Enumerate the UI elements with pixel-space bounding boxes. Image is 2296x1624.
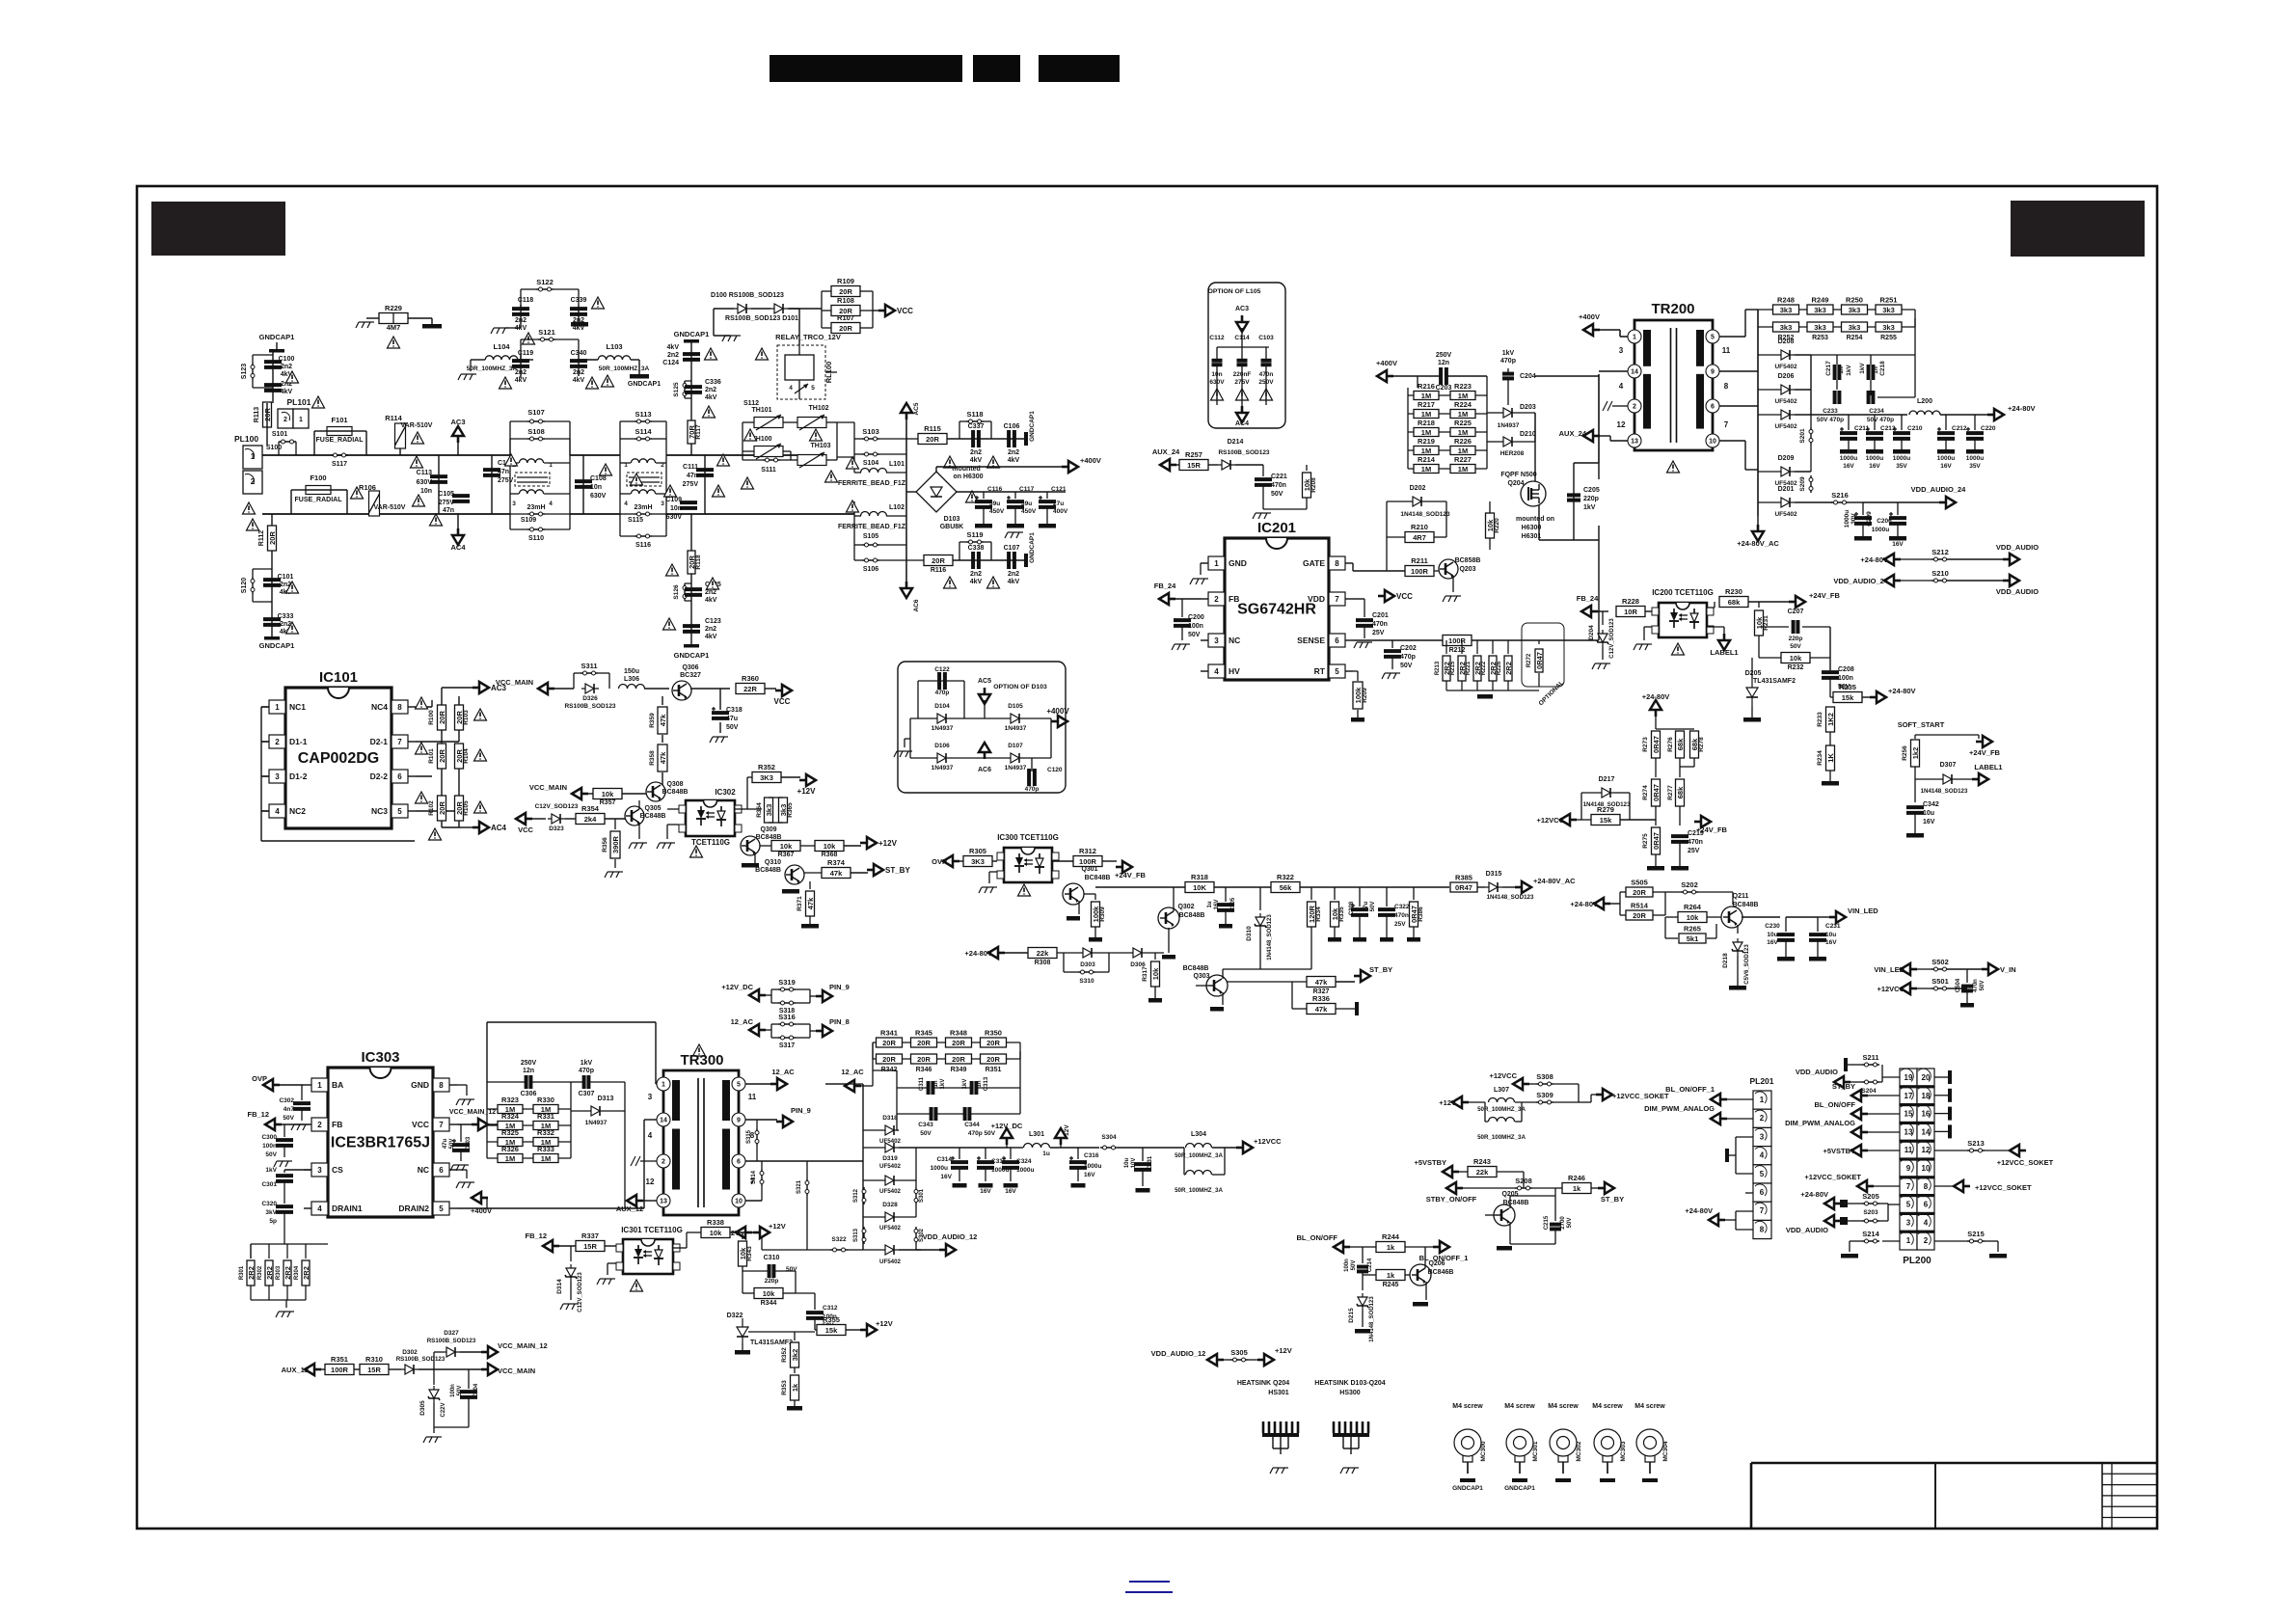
svg-text:Q206: Q206 bbox=[1428, 1260, 1445, 1267]
resistor R272 optional bbox=[1522, 623, 1564, 687]
svg-text:C12V_SOD123: C12V_SOD123 bbox=[1609, 618, 1615, 659]
drawing frame border bbox=[137, 186, 2157, 1529]
svg-text:C342: C342 bbox=[1923, 801, 1939, 808]
svg-text:S210: S210 bbox=[1931, 569, 1949, 578]
capacitor C304 bbox=[468, 1369, 470, 1389]
wires option D103 bbox=[910, 717, 933, 719]
diode D206 bbox=[1777, 385, 1795, 394]
svg-text:6: 6 bbox=[439, 1166, 444, 1175]
svg-text:VDD_AUDIO_24: VDD_AUDIO_24 bbox=[1833, 577, 1889, 585]
arrow +24-80V right bbox=[1870, 691, 1886, 703]
svg-text:VIN_LED: VIN_LED bbox=[1848, 907, 1878, 915]
capacitor C119 bbox=[520, 355, 522, 378]
capacitor C340 bbox=[578, 355, 580, 376]
svg-text:VDD_AUDIO: VDD_AUDIO bbox=[1996, 543, 2039, 552]
jumper S305 bbox=[1207, 1354, 1224, 1366]
resistor R118 bbox=[690, 514, 692, 644]
svg-text:S101: S101 bbox=[272, 431, 287, 438]
resistor R354 bbox=[576, 814, 605, 825]
svg-text:R107: R107 bbox=[837, 313, 854, 322]
resistor R235 bbox=[1833, 692, 1862, 703]
svg-text:S114: S114 bbox=[635, 427, 652, 436]
capacitor C208 bbox=[1822, 670, 1839, 674]
svg-text:50R_100MHZ_3A: 50R_100MHZ_3A bbox=[1175, 1187, 1223, 1194]
jumper S216 bbox=[1831, 501, 1849, 503]
svg-text:D100 RS100B_SOD123: D100 RS100B_SOD123 bbox=[711, 292, 784, 299]
IC IC201 SG6742HR bbox=[1225, 538, 1329, 680]
svg-text:VCC_MAIN_12: VCC_MAIN_12 bbox=[498, 1341, 548, 1350]
svg-text:R218: R218 bbox=[1418, 419, 1435, 427]
resistors R364 R365 bbox=[747, 808, 762, 810]
svg-text:+12VCC_SOKET: +12VCC_SOKET bbox=[1804, 1173, 1861, 1181]
arrow AC5 option bbox=[979, 688, 990, 704]
svg-text:D214: D214 bbox=[1228, 439, 1244, 446]
svg-text:1n: 1n bbox=[1838, 366, 1845, 374]
svg-text:S104: S104 bbox=[863, 460, 878, 467]
varistor R114 bbox=[395, 423, 406, 448]
svg-text:50V: 50V bbox=[1271, 491, 1283, 498]
capacitor C322 bbox=[1386, 887, 1388, 907]
svg-text:3: 3 bbox=[1760, 1132, 1765, 1141]
svg-text:R349: R349 bbox=[951, 1067, 967, 1073]
svg-text:AC4: AC4 bbox=[491, 824, 507, 832]
svg-text:2: 2 bbox=[1924, 1236, 1929, 1245]
svg-text:D1-1: D1-1 bbox=[289, 737, 308, 746]
svg-text:C320: C320 bbox=[261, 1201, 277, 1207]
main rail 24-80V_AC bbox=[1095, 886, 1185, 888]
svg-text:PIN_9: PIN_9 bbox=[829, 983, 850, 991]
jumper S202 bbox=[1681, 891, 1698, 893]
svg-text:D319: D319 bbox=[882, 1155, 898, 1162]
svg-text:R227: R227 bbox=[1454, 455, 1472, 464]
svg-text:13: 13 bbox=[1631, 439, 1638, 446]
arrow +12VCC bbox=[1560, 814, 1577, 826]
svg-text:C109: C109 bbox=[665, 497, 682, 503]
arrow +24-80V q302 bbox=[988, 947, 1005, 959]
svg-text:VCC: VCC bbox=[897, 307, 913, 315]
resistor R334 bbox=[1310, 887, 1312, 900]
resistor R211 bbox=[1405, 566, 1434, 577]
svg-text:+24-80V: +24-80V bbox=[1570, 900, 1598, 908]
pl201 pins 3-5 join bbox=[1736, 1136, 1753, 1138]
svg-text:GNDCAP1: GNDCAP1 bbox=[674, 330, 710, 338]
svg-text:1kV: 1kV bbox=[1859, 363, 1866, 374]
diode D315 bbox=[1485, 882, 1502, 892]
resistor R109 bbox=[831, 286, 860, 297]
svg-text:5: 5 bbox=[439, 1204, 444, 1213]
svg-text:D328: D328 bbox=[882, 1202, 898, 1208]
svg-text:MC303: MC303 bbox=[1620, 1441, 1627, 1461]
capacitor C305 bbox=[1225, 887, 1227, 902]
svg-text:20R: 20R bbox=[839, 324, 852, 333]
wire IC101 left loop bbox=[261, 706, 269, 708]
svg-text:47u: 47u bbox=[443, 1138, 448, 1149]
svg-text:20R: 20R bbox=[438, 749, 446, 763]
capacitor C118 bbox=[520, 305, 522, 328]
resistor R352 bbox=[735, 808, 747, 810]
svg-text:5k1: 5k1 bbox=[1687, 934, 1699, 943]
svg-text:VCC: VCC bbox=[774, 697, 791, 706]
capacitor C307 bbox=[582, 1075, 586, 1089]
capacitor C318 bbox=[687, 689, 689, 700]
svg-text:R113: R113 bbox=[254, 407, 260, 422]
svg-text:F101: F101 bbox=[331, 416, 347, 424]
svg-text:R371: R371 bbox=[797, 896, 803, 911]
svg-text:2n2: 2n2 bbox=[1008, 571, 1019, 578]
arrow 12_AC a bbox=[770, 1078, 787, 1090]
svg-text:47k: 47k bbox=[659, 714, 667, 726]
capacitor C107 bbox=[1007, 552, 1011, 569]
svg-text:20R: 20R bbox=[438, 801, 446, 815]
svg-text:20R: 20R bbox=[986, 1039, 1000, 1047]
svg-text:R309: R309 bbox=[1099, 907, 1106, 922]
svg-text:C120: C120 bbox=[1047, 767, 1063, 773]
ground pin1 bbox=[1200, 563, 1202, 575]
svg-text:630V: 630V bbox=[666, 514, 683, 521]
capacitor C218 bbox=[1867, 365, 1871, 380]
svg-text:IC302: IC302 bbox=[715, 788, 736, 797]
arrow ST_BY q205 bbox=[1598, 1182, 1614, 1194]
arrow +12VCC l307 bbox=[1513, 1078, 1529, 1090]
svg-text:R249: R249 bbox=[1812, 296, 1829, 305]
svg-text:+400V: +400V bbox=[1046, 707, 1069, 716]
svg-text:R303: R303 bbox=[276, 1265, 282, 1280]
pl201 pins 6-8 join bbox=[1736, 1210, 1753, 1212]
capacitor C313 bbox=[970, 1081, 974, 1095]
capacitor C233 bbox=[1833, 391, 1837, 404]
svg-text:R108: R108 bbox=[837, 296, 854, 305]
arrow VCC_MAIN bottom bbox=[481, 1364, 498, 1375]
svg-text:C311: C311 bbox=[919, 1076, 925, 1091]
svg-text:R256: R256 bbox=[1902, 745, 1908, 761]
jumper S302 bbox=[915, 1227, 917, 1244]
arrow AUX_24 TR200 bbox=[1583, 430, 1600, 442]
svg-text:220p: 220p bbox=[765, 1278, 779, 1285]
svg-text:R278: R278 bbox=[1698, 737, 1705, 752]
svg-text:2n2: 2n2 bbox=[970, 449, 982, 456]
svg-text:D310: D310 bbox=[1246, 926, 1253, 941]
svg-text:AC3: AC3 bbox=[1235, 306, 1249, 312]
svg-text:C111: C111 bbox=[683, 464, 698, 471]
zener D204 bbox=[1602, 611, 1604, 625]
svg-text:3k3: 3k3 bbox=[765, 804, 773, 817]
svg-text:11: 11 bbox=[1904, 1146, 1913, 1154]
arrow +12V s322 bbox=[736, 1227, 752, 1238]
svg-text:UF5402: UF5402 bbox=[879, 1163, 902, 1170]
svg-text:FERRITE_BEAD_F1Z: FERRITE_BEAD_F1Z bbox=[838, 480, 906, 487]
svg-text:1000u: 1000u bbox=[1966, 455, 1984, 462]
resistor R357 bbox=[593, 789, 622, 799]
resistor R368 bbox=[800, 845, 815, 847]
arrow +12VCC_SOKET pl200 right bbox=[1934, 1185, 1958, 1187]
svg-text:9: 9 bbox=[737, 1118, 741, 1124]
svg-text:R323: R323 bbox=[501, 1096, 519, 1104]
svg-text:RS100B_SOD123: RS100B_SOD123 bbox=[427, 1338, 476, 1344]
svg-text:TCET110G: TCET110G bbox=[691, 838, 730, 847]
svg-text:15: 15 bbox=[1904, 1110, 1913, 1119]
svg-text:47n: 47n bbox=[687, 473, 698, 479]
capacitor C306 bbox=[525, 1075, 528, 1089]
svg-text:C218: C218 bbox=[1879, 361, 1886, 376]
arrow VCC_MAIN_12 ic303 bbox=[472, 1119, 488, 1130]
arrow +12V after L301 bbox=[1055, 1128, 1067, 1145]
svg-text:25V: 25V bbox=[1688, 848, 1700, 854]
jumper S322 bbox=[762, 1249, 830, 1251]
svg-text:AUX_12: AUX_12 bbox=[616, 1204, 643, 1213]
jumper S304 bbox=[1100, 1147, 1118, 1149]
svg-text:12: 12 bbox=[1922, 1146, 1931, 1154]
svg-text:CAP002DG: CAP002DG bbox=[298, 750, 379, 767]
svg-text:IC301 TCET110G: IC301 TCET110G bbox=[621, 1226, 683, 1234]
arrow VCC_MAIN 2 bbox=[572, 788, 588, 799]
capacitor C206 bbox=[1863, 501, 1898, 503]
svg-text:16V: 16V bbox=[1825, 939, 1837, 946]
svg-text:10: 10 bbox=[735, 1199, 743, 1205]
svg-text:R279: R279 bbox=[1597, 805, 1614, 814]
svg-text:BC848B: BC848B bbox=[1085, 875, 1111, 881]
arrow AC3 bbox=[473, 682, 489, 693]
svg-text:7: 7 bbox=[1335, 595, 1339, 604]
svg-text:VCC: VCC bbox=[412, 1120, 429, 1129]
svg-text:R364: R364 bbox=[756, 802, 763, 818]
svg-text:Q310: Q310 bbox=[765, 859, 781, 866]
svg-text:470p: 470p bbox=[579, 1068, 594, 1074]
svg-text:275V: 275V bbox=[498, 477, 514, 484]
svg-text:20R: 20R bbox=[917, 1039, 931, 1047]
svg-text:NC4: NC4 bbox=[371, 702, 388, 712]
capacitor C214 bbox=[1362, 1247, 1364, 1263]
svg-text:D307: D307 bbox=[1940, 762, 1957, 769]
transistor Q305 bbox=[625, 806, 644, 826]
arrow BL_ON/OFF pl200 bbox=[1851, 1108, 1868, 1120]
arrow VDD_AUDIO pl200 bbox=[1824, 1215, 1841, 1227]
svg-text:10k: 10k bbox=[780, 842, 793, 851]
svg-text:S319: S319 bbox=[778, 978, 796, 987]
svg-text:S108: S108 bbox=[527, 427, 545, 436]
svg-text:D215: D215 bbox=[1348, 1308, 1355, 1323]
capacitor C212 bbox=[1945, 415, 1947, 430]
svg-text:D210: D210 bbox=[1520, 431, 1536, 438]
svg-text:R322: R322 bbox=[1277, 873, 1294, 881]
svg-text:470p 50V: 470p 50V bbox=[968, 1130, 996, 1137]
svg-text:S122: S122 bbox=[536, 278, 554, 286]
svg-text:10k: 10k bbox=[1687, 913, 1699, 922]
svg-text:+5VSTBY: +5VSTBY bbox=[1414, 1158, 1446, 1167]
svg-text:Q305: Q305 bbox=[644, 805, 661, 812]
pl200 right side shorts bbox=[1934, 1076, 1950, 1078]
svg-text:BC848B: BC848B bbox=[1179, 912, 1205, 919]
svg-text:UF5402: UF5402 bbox=[879, 1188, 902, 1195]
svg-text:470p: 470p bbox=[1500, 358, 1516, 365]
svg-text:C212: C212 bbox=[1952, 425, 1967, 432]
arrow VDD_AUDIO_24 bbox=[1898, 501, 1940, 503]
diode D328 bbox=[881, 1212, 899, 1222]
resistor R367 bbox=[760, 845, 771, 847]
svg-text:4kV: 4kV bbox=[705, 597, 717, 604]
svg-text:+12V: +12V bbox=[876, 1319, 893, 1328]
arrow LABEL1 soft bbox=[1972, 773, 1988, 785]
svg-text:RS100B_SOD123 D101: RS100B_SOD123 D101 bbox=[725, 315, 798, 322]
svg-text:47k: 47k bbox=[1315, 978, 1328, 987]
svg-text:FB_12: FB_12 bbox=[247, 1110, 269, 1119]
svg-text:C333: C333 bbox=[278, 613, 294, 620]
svg-text:S203: S203 bbox=[1863, 1209, 1878, 1216]
arrow AC4 bbox=[452, 528, 464, 545]
svg-text:1kV: 1kV bbox=[1583, 504, 1596, 511]
svg-text:FUSE_RADIAL: FUSE_RADIAL bbox=[315, 437, 364, 444]
svg-text:C336: C336 bbox=[705, 379, 721, 386]
svg-text:C12V_SOD123: C12V_SOD123 bbox=[578, 1272, 583, 1313]
svg-text:+24-80V: +24-80V bbox=[1685, 1206, 1713, 1215]
svg-text:S204: S204 bbox=[1861, 1088, 1877, 1095]
svg-text:R350: R350 bbox=[985, 1029, 1002, 1038]
jumper S316 row bbox=[749, 1024, 766, 1036]
svg-text:4kV: 4kV bbox=[705, 634, 717, 640]
svg-text:C204: C204 bbox=[1520, 373, 1536, 380]
svg-text:50V: 50V bbox=[449, 1139, 455, 1150]
svg-text:L306: L306 bbox=[624, 676, 639, 683]
jumper S203 bbox=[1862, 1220, 1879, 1222]
svg-text:8: 8 bbox=[1924, 1182, 1929, 1191]
svg-text:BC858B: BC858B bbox=[1455, 557, 1481, 564]
svg-text:4kV: 4kV bbox=[970, 579, 983, 585]
svg-text:47n: 47n bbox=[498, 469, 509, 475]
svg-text:50V: 50V bbox=[920, 1130, 932, 1137]
svg-text:R333: R333 bbox=[537, 1145, 554, 1153]
svg-text:1kV: 1kV bbox=[581, 1060, 593, 1067]
svg-text:S502: S502 bbox=[1931, 958, 1949, 966]
svg-text:D313: D313 bbox=[598, 1096, 614, 1102]
arrow VIN_LED bbox=[1818, 916, 1830, 918]
svg-text:RS100B_SOD123: RS100B_SOD123 bbox=[1218, 449, 1269, 456]
svg-text:DIM_PWM_ANALOG: DIM_PWM_ANALOG bbox=[1785, 1119, 1855, 1127]
svg-text:47k: 47k bbox=[659, 751, 667, 764]
svg-text:R102: R102 bbox=[428, 800, 435, 816]
svg-text:1N4937: 1N4937 bbox=[585, 1120, 608, 1126]
svg-text:C118: C118 bbox=[518, 297, 533, 304]
wire AC live bbox=[262, 454, 439, 456]
arrow +400V ic303 bbox=[472, 1192, 488, 1204]
svg-text:12: 12 bbox=[1617, 420, 1626, 429]
capacitor C311 bbox=[927, 1081, 931, 1095]
diode D318 bbox=[881, 1125, 899, 1135]
svg-text:50V 470p: 50V 470p bbox=[1867, 417, 1894, 423]
optocoupler IC302 bbox=[686, 800, 735, 836]
top redaction bar 2 bbox=[973, 55, 1020, 82]
svg-text:VCC_MAIN: VCC_MAIN bbox=[529, 783, 567, 792]
resistor R220 bbox=[1474, 570, 1476, 572]
jumper S111 bbox=[763, 459, 780, 461]
svg-text:R276: R276 bbox=[1667, 737, 1674, 752]
wire TR300 pin6 bbox=[745, 1160, 863, 1162]
resistor R229 bbox=[379, 313, 408, 324]
svg-text:C340: C340 bbox=[571, 350, 587, 357]
arrow +24V_FB soft bbox=[1976, 736, 1992, 747]
svg-text:R212: R212 bbox=[1449, 647, 1466, 654]
svg-text:250V: 250V bbox=[521, 1060, 537, 1067]
svg-text:S106: S106 bbox=[863, 566, 878, 573]
svg-text:GNDCAP1: GNDCAP1 bbox=[259, 333, 295, 341]
svg-text:47k: 47k bbox=[806, 897, 815, 909]
svg-text:47u: 47u bbox=[726, 716, 738, 722]
wire CS bbox=[304, 1169, 311, 1171]
svg-text:20R: 20R bbox=[438, 711, 446, 724]
capacitor C121 bbox=[1046, 492, 1048, 499]
svg-text:3k3: 3k3 bbox=[1882, 306, 1895, 314]
svg-text:S309: S309 bbox=[1536, 1091, 1553, 1099]
capacitor C331 bbox=[1142, 1148, 1144, 1161]
capacitor C112 bbox=[1216, 347, 1218, 361]
svg-text:R243: R243 bbox=[1473, 1157, 1491, 1166]
svg-text:4n7: 4n7 bbox=[284, 1106, 295, 1113]
capacitor C314 bbox=[959, 1148, 960, 1159]
svg-text:50V: 50V bbox=[1400, 663, 1413, 669]
svg-text:2n2: 2n2 bbox=[705, 387, 716, 393]
svg-text:+12V: +12V bbox=[769, 1222, 786, 1231]
svg-text:10k: 10k bbox=[824, 842, 836, 851]
transistor Q206 bbox=[1410, 1264, 1431, 1286]
svg-text:50V: 50V bbox=[283, 1115, 294, 1122]
svg-text:7: 7 bbox=[1724, 420, 1729, 429]
svg-text:3: 3 bbox=[661, 501, 664, 507]
svg-text:9: 9 bbox=[1711, 369, 1715, 376]
svg-text:7: 7 bbox=[1906, 1182, 1911, 1191]
svg-text:1000u: 1000u bbox=[1872, 527, 1889, 533]
arrow DIM_PWM_ANALOG pl200 bbox=[1851, 1126, 1868, 1138]
svg-text:R104: R104 bbox=[463, 748, 470, 764]
svg-text:+12VCC_SOKET: +12VCC_SOKET bbox=[1975, 1183, 2032, 1192]
arrow +12V l307 bbox=[1452, 1096, 1469, 1108]
svg-text:SENSE: SENSE bbox=[1297, 636, 1325, 645]
svg-text:3: 3 bbox=[512, 501, 516, 507]
svg-text:12n: 12n bbox=[523, 1068, 534, 1074]
svg-text:R352: R352 bbox=[758, 763, 775, 771]
svg-text:10n: 10n bbox=[590, 484, 602, 491]
svg-text:S117: S117 bbox=[332, 461, 347, 468]
wire TR300 pin5 bbox=[745, 1083, 771, 1085]
svg-text:16V: 16V bbox=[1214, 900, 1220, 910]
svg-text:S113: S113 bbox=[635, 410, 651, 419]
svg-text:R385: R385 bbox=[1455, 874, 1472, 882]
resistor matrix R216-R227 bbox=[1414, 392, 1439, 400]
arrow ST_BY ic300 bbox=[1354, 970, 1370, 982]
svg-text:1N4148_SOD123: 1N4148_SOD123 bbox=[1267, 914, 1273, 961]
resistor R305 bbox=[963, 856, 992, 867]
svg-text:C308: C308 bbox=[1349, 901, 1355, 915]
svg-text:IC101: IC101 bbox=[319, 669, 358, 686]
resistor R337 bbox=[576, 1241, 605, 1252]
resistor R257 bbox=[1179, 460, 1208, 471]
capacitor C201 bbox=[1364, 599, 1365, 617]
svg-text:C233: C233 bbox=[1823, 408, 1838, 415]
svg-text:VDD_AUDIO: VDD_AUDIO bbox=[1996, 587, 2039, 596]
svg-text:+12VCC_SOKET: +12VCC_SOKET bbox=[1612, 1092, 1669, 1100]
diode D202 bbox=[1409, 497, 1426, 506]
jumper S315 bbox=[756, 1120, 758, 1128]
svg-text:FB_12: FB_12 bbox=[525, 1232, 547, 1240]
transistor Q306 bbox=[672, 681, 691, 700]
svg-text:C331: C331 bbox=[1148, 1155, 1153, 1170]
thermistor TH101 bbox=[754, 418, 783, 428]
svg-text:1000u: 1000u bbox=[1016, 1167, 1034, 1174]
svg-text:NC: NC bbox=[1229, 636, 1240, 645]
chassis pin2 bbox=[1612, 405, 1628, 407]
svg-text:D1-2: D1-2 bbox=[289, 771, 308, 781]
svg-text:R217: R217 bbox=[1418, 400, 1435, 409]
svg-text:16: 16 bbox=[1922, 1110, 1931, 1119]
svg-text:2R2: 2R2 bbox=[1504, 662, 1513, 675]
svg-text:+12VCC_SOKET: +12VCC_SOKET bbox=[1997, 1158, 2054, 1167]
